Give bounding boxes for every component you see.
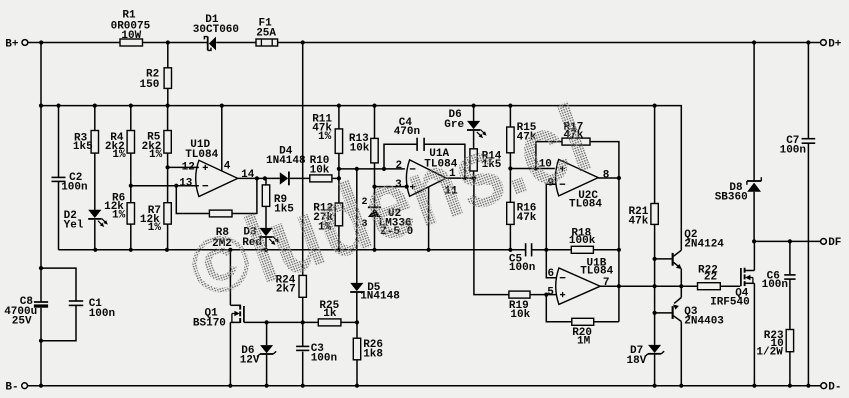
LED D3 red (259, 228, 272, 236)
svg-text:TL084: TL084 (185, 149, 218, 161)
wire U1A output jog to R19 (474, 178, 509, 295)
wire mid column x=619 (618, 178, 620, 322)
wire R4-R6 column (130, 106, 132, 131)
schottky diode D8 SB360 (747, 180, 761, 182)
LED D2 yellow (88, 210, 101, 218)
svg-text:1%: 1% (112, 149, 126, 161)
svg-text:D+: D+ (828, 38, 842, 50)
wire U1B output to R22 (600, 285, 697, 287)
svg-text:DF: DF (828, 237, 841, 249)
terminal OD+ (821, 40, 827, 46)
svg-text:1k8: 1k8 (363, 349, 383, 361)
svg-text:6: 6 (548, 268, 555, 280)
diode D4 1N4148 (280, 172, 288, 184)
voltage reference U2 LM336 (368, 206, 381, 208)
terminal B+ (22, 40, 28, 46)
resistor R5 (164, 131, 171, 154)
svg-text:1N4148: 1N4148 (266, 155, 306, 167)
wire R9-D3 column (265, 178, 267, 185)
wire R8 feedback loop (176, 186, 209, 214)
svg-text:1%: 1% (148, 222, 162, 234)
wire U1D pin 13 input (131, 185, 199, 187)
wire R13-U2 column (374, 106, 376, 139)
wire Q4 source down (753, 283, 755, 385)
svg-text:TL084: TL084 (580, 266, 613, 278)
svg-text:10k: 10k (510, 309, 530, 321)
capacitor C1 (69, 300, 83, 302)
svg-text:22: 22 (704, 272, 717, 284)
mosfet Q4 IRF540 (745, 270, 755, 272)
svg-text:7: 7 (603, 277, 610, 289)
capacitor C4 (416, 138, 418, 151)
wire R15-R16 column (509, 106, 511, 127)
junction dots (39, 40, 43, 44)
wire U2C pin 9 / U1B pin 6 column (546, 184, 556, 278)
svg-text:2N4403: 2N4403 (684, 316, 724, 328)
capacitor C6 (784, 274, 795, 276)
svg-text:1%: 1% (318, 131, 332, 143)
wire B+ branch down at x=41 (40, 43, 42, 303)
svg-text:4: 4 (224, 161, 231, 173)
wire R26 column (356, 322, 358, 338)
resistor R19 (509, 291, 530, 298)
fuse F1 (256, 39, 278, 46)
wire ODF line (754, 240, 821, 242)
terminal ODF (821, 239, 827, 245)
wire R17 feedback loop (536, 142, 562, 169)
resistor R6 (127, 203, 134, 224)
wire D5 column (356, 169, 358, 283)
zener diode D7 18V (648, 345, 661, 353)
svg-text:100n: 100n (762, 279, 788, 291)
wire Q1 gate lead / R25 line (244, 321, 318, 323)
wire Q1 drain column (229, 250, 231, 305)
zener diode D6 12V (260, 345, 273, 353)
wire U1A output (446, 177, 474, 179)
svg-text:1N4148: 1N4148 (360, 291, 400, 303)
wire D6 LED / R14 column (473, 106, 475, 121)
svg-text:SB360: SB360 (715, 191, 748, 203)
svg-text:BS170: BS170 (193, 317, 226, 329)
resistor R26 (353, 338, 360, 360)
wire R18 to mid column (593, 249, 619, 251)
wire R5-R7 column (167, 106, 169, 131)
svg-text:1/2W: 1/2W (756, 346, 783, 358)
resistor R18 (571, 246, 593, 253)
svg-text:1k5: 1k5 (73, 141, 93, 153)
resistor R14 (470, 149, 477, 171)
wire R24-C3 column (302, 43, 304, 276)
svg-text:IRF540: IRF540 (710, 296, 750, 308)
wire U1A pin 2 line (339, 168, 405, 170)
capacitor C5 (525, 243, 527, 256)
wire R10 to node (332, 177, 339, 179)
svg-text:18V: 18V (627, 355, 647, 367)
diode D1 30CT060 (209, 37, 216, 51)
wire U1A pin 11 supply (428, 187, 430, 250)
resistor R13 (371, 138, 378, 163)
wire D4 to R10 (290, 177, 310, 179)
resistor R16 (507, 202, 514, 224)
resistor R12 (335, 203, 342, 226)
wire C6-R23 column (789, 241, 791, 275)
resistor R8 (209, 210, 232, 217)
svg-text:47k: 47k (629, 215, 649, 227)
svg-text:10W: 10W (121, 30, 141, 42)
op-amp U1B TL084 (556, 268, 601, 304)
svg-text:B+: B+ (5, 39, 19, 51)
svg-text:1k: 1k (323, 308, 337, 320)
svg-text:12V: 12V (240, 355, 260, 367)
svg-text:100k: 100k (569, 235, 596, 247)
resistor R21 (651, 204, 658, 225)
svg-text:25V: 25V (12, 315, 32, 327)
wire R3-D2 column (94, 106, 96, 131)
svg-text:1%: 1% (149, 149, 163, 161)
mosfet Q1 BS170 (230, 304, 240, 306)
wire U1A pin 3 line (375, 186, 408, 188)
op-amp U1A TL084 (406, 160, 446, 196)
wire Q4 drain (753, 241, 755, 270)
transistor Q2 2N4124 NPN (672, 253, 674, 266)
wire U1D output (238, 177, 280, 179)
wire U1B pin5-R20 loop (546, 295, 572, 322)
svg-text:Yel: Yel (64, 219, 84, 231)
svg-text:TL084: TL084 (569, 198, 602, 210)
svg-text:1%: 1% (112, 210, 126, 222)
wire B+ top rail (28, 42, 120, 44)
resistor R24 (299, 275, 306, 297)
resistor R22 (698, 283, 721, 290)
svg-text:1M: 1M (577, 335, 591, 347)
resistor R17 (562, 138, 590, 145)
wire D6 zener column (266, 322, 268, 345)
wire R2 leads (167, 43, 169, 68)
wire op-amp supply bus (41, 106, 681, 251)
wire Q2 emitter to node (680, 269, 682, 286)
resistor R7 (164, 203, 171, 224)
svg-text:14: 14 (241, 169, 255, 181)
svg-text:100n: 100n (61, 182, 87, 194)
resistor R25 (318, 319, 341, 326)
wire C8 lower lead (40, 308, 42, 386)
op-amp U2C TL084 (556, 159, 599, 196)
wire node to R18 (546, 249, 571, 251)
svg-text:5: 5 (547, 287, 554, 299)
svg-text:13: 13 (179, 177, 193, 189)
wire Q1 source down (229, 322, 231, 385)
svg-text:100n: 100n (509, 262, 535, 274)
resistor R15 (507, 127, 514, 153)
capacitor C2 (52, 176, 66, 178)
wire D8 column (753, 43, 755, 181)
svg-text:150: 150 (140, 79, 160, 91)
resistor R4 (127, 131, 134, 154)
wire Q3 base lead (655, 312, 672, 314)
svg-text:2N4124: 2N4124 (684, 238, 724, 250)
resistor R11 (335, 129, 342, 154)
svg-text:D-: D- (828, 382, 841, 394)
resistor R20 (572, 318, 594, 325)
terminal B- (22, 383, 28, 389)
svg-text:100n: 100n (311, 353, 337, 365)
diode D5 1N4148 (350, 283, 363, 291)
svg-text:30CT060: 30CT060 (193, 24, 239, 36)
capacitor C3 (296, 345, 309, 347)
terminal OD- (821, 383, 827, 389)
wire U1D pin 12 input (168, 166, 199, 168)
resistor R1 (120, 39, 143, 46)
svg-text:25A: 25A (256, 27, 276, 39)
wire Q3 emitter from node (680, 286, 682, 297)
wire Q3 collector down (680, 322, 682, 386)
wire U1D pin 4 supply (221, 106, 223, 172)
capacitor C8 electrolytic (34, 301, 48, 303)
wire B- bottom rail (28, 385, 821, 387)
svg-text:100n: 100n (89, 308, 115, 320)
resistor R10 (310, 175, 332, 182)
wire C1 parallel branch (41, 268, 76, 301)
wire lower bus (59, 249, 526, 251)
wire C7 column (807, 43, 809, 139)
transistor Q3 2N4403 PNP (672, 306, 674, 319)
svg-text:100n: 100n (780, 145, 806, 157)
capacitor C7 (802, 138, 816, 140)
resistor R3 (91, 131, 98, 154)
svg-text:12: 12 (182, 162, 195, 174)
wire C2 column (58, 106, 60, 178)
wire base column R21-D7 (654, 106, 656, 204)
wire C4 feedback loop (384, 144, 417, 169)
wire U2C output (598, 177, 619, 179)
svg-text:B-: B- (5, 382, 18, 394)
svg-text:8: 8 (603, 170, 610, 182)
wire U2C pin 10 line (510, 168, 554, 170)
resistor R23 (786, 330, 793, 352)
resistor R9 (262, 185, 269, 207)
wire R19 to U1B pin 5 (530, 294, 556, 296)
wire R11-R12 column (338, 106, 340, 129)
resistor R2 (164, 68, 171, 89)
wire Q2 base lead (655, 258, 672, 260)
LED D6 green (467, 121, 480, 129)
op-amp U1D TL084 (196, 160, 238, 196)
